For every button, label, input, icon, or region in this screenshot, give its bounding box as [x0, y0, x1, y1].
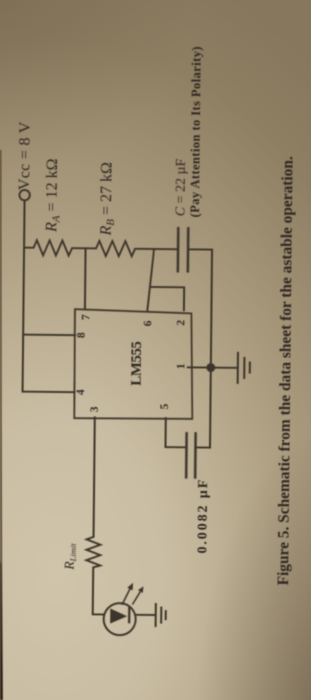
svg-text:5: 5 — [159, 403, 171, 409]
svg-text:4: 4 — [75, 389, 87, 395]
svg-text:RLimit: RLimit — [62, 543, 78, 571]
svg-text:(Pay Attention to Its Polarity: (Pay Attention to Its Polarity) — [188, 46, 204, 217]
svg-text:Figure 5. Schematic from the d: Figure 5. Schematic from the data sheet … — [275, 156, 296, 585]
svg-text:Vcc = 8 V: Vcc = 8 V — [16, 121, 34, 190]
svg-text:C = 22 µF: C = 22 µF — [173, 158, 189, 216]
svg-text:RB = 27 kΩ: RB = 27 kΩ — [98, 162, 118, 237]
svg-text:RA = 12 kΩ: RA = 12 kΩ — [43, 158, 63, 233]
svg-text:0.0082 µF: 0.0082 µF — [195, 478, 211, 554]
svg-text:3: 3 — [89, 406, 101, 412]
svg-text:2: 2 — [175, 320, 187, 326]
svg-text:8: 8 — [76, 332, 88, 338]
svg-text:LM555: LM555 — [129, 342, 145, 386]
svg-text:7: 7 — [80, 314, 92, 320]
svg-text:1: 1 — [175, 363, 187, 369]
svg-text:6: 6 — [142, 320, 154, 326]
